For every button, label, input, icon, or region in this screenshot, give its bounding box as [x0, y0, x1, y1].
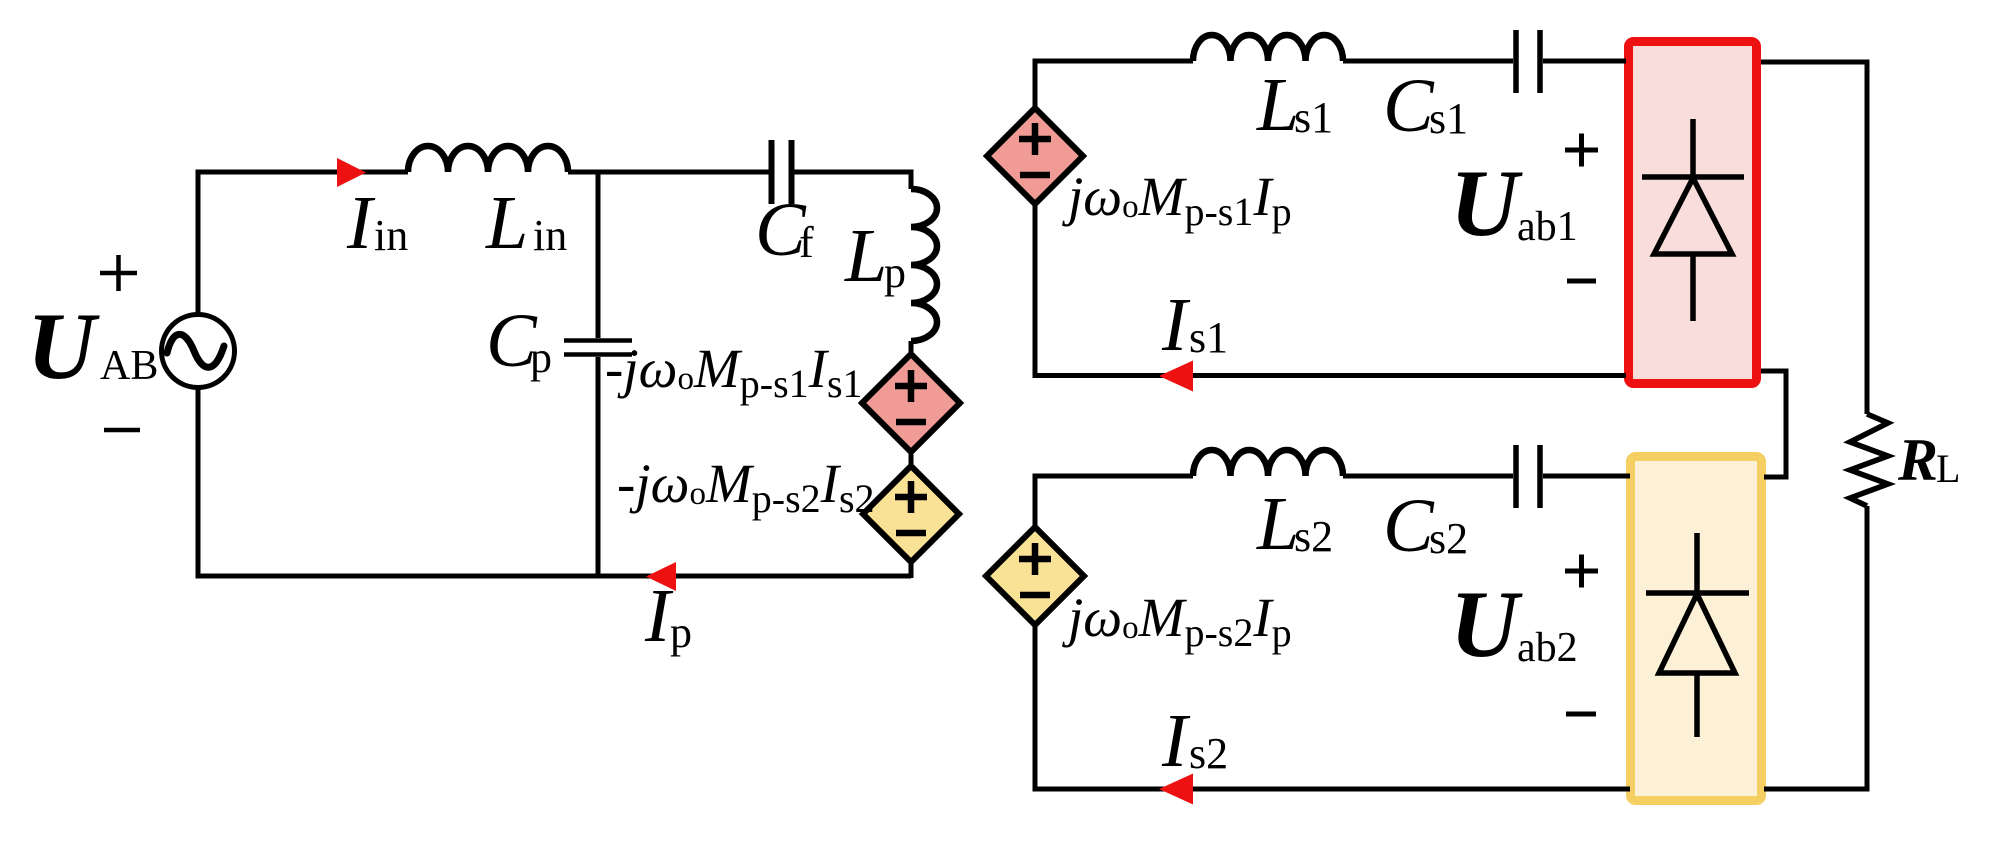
svg-text:ab1: ab1: [1517, 204, 1578, 250]
svg-text:s2: s2: [1189, 729, 1228, 778]
svg-text:s2: s2: [1429, 514, 1468, 563]
svg-text:R: R: [1897, 427, 1938, 493]
svg-text:ab2: ab2: [1517, 625, 1578, 671]
svg-text:U: U: [1450, 571, 1523, 677]
svg-text:C: C: [1383, 64, 1435, 148]
svg-text:L: L: [1936, 446, 1960, 491]
svg-text:L: L: [1256, 482, 1299, 566]
svg-text:s1: s1: [1429, 94, 1468, 143]
svg-text:s1: s1: [1294, 93, 1333, 142]
svg-text:p: p: [884, 248, 906, 297]
svg-text:-jωoMp-s2Is2: -jωoMp-s2Is2: [617, 453, 875, 521]
svg-text:s1: s1: [1189, 313, 1228, 362]
svg-text:in: in: [374, 211, 408, 260]
svg-text:in: in: [533, 211, 567, 260]
svg-text:jωoMp-s2Ip: jωoMp-s2Ip: [1062, 587, 1292, 655]
svg-text:L: L: [844, 214, 887, 298]
svg-text:p: p: [670, 608, 692, 657]
svg-text:I: I: [1161, 699, 1191, 783]
svg-text:jωoMp-s1Ip: jωoMp-s1Ip: [1062, 166, 1292, 234]
svg-text:-jωoMp-s1Is1: -jωoMp-s1Is1: [605, 338, 863, 406]
svg-text:C: C: [1383, 484, 1435, 568]
svg-text:U: U: [1450, 150, 1523, 256]
svg-text:L: L: [485, 181, 528, 265]
svg-text:I: I: [1161, 283, 1191, 367]
svg-text:AB: AB: [100, 343, 158, 389]
svg-text:f: f: [799, 218, 814, 267]
svg-text:U: U: [27, 293, 100, 399]
svg-text:I: I: [346, 181, 376, 265]
svg-text:p: p: [530, 333, 552, 382]
svg-text:L: L: [1256, 63, 1299, 147]
svg-text:s2: s2: [1294, 512, 1333, 561]
